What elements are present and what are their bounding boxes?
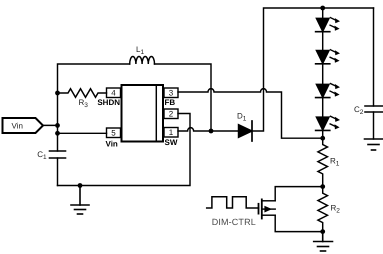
pin 2 box <box>164 109 178 119</box>
svg-text:R3: R3 <box>79 98 89 109</box>
svg-text:SHDN: SHDN <box>97 98 120 107</box>
svg-text:2: 2 <box>169 110 174 119</box>
pin 5 box <box>107 128 121 138</box>
junction dot: LED bottom / FB node <box>320 136 325 141</box>
wire: SW pin to switch node with hop <box>178 128 211 131</box>
svg-text:3: 3 <box>169 89 174 98</box>
junction dot: pin5 tap <box>55 131 60 136</box>
wire: switch node to diode <box>211 130 239 132</box>
svg-text:4: 4 <box>111 89 116 98</box>
wire: top rail right segment <box>155 64 212 131</box>
wire: D1 cathode up to output rail <box>252 8 374 131</box>
LED 1 <box>316 18 340 32</box>
ground (C2) <box>365 139 383 150</box>
Vin input tag <box>3 118 44 133</box>
svg-text:D1: D1 <box>237 112 247 123</box>
ground (input) <box>71 186 89 215</box>
diode D1 <box>239 125 253 138</box>
svg-text:C2: C2 <box>354 105 364 116</box>
svg-text:C1: C1 <box>37 150 47 161</box>
svg-text:L1: L1 <box>136 45 144 56</box>
wire: bottom ground rail <box>58 114 191 186</box>
LED 3 <box>316 84 340 98</box>
wire: LED string spine <box>322 8 324 138</box>
svg-text:1: 1 <box>169 128 174 137</box>
svg-text:R1: R1 <box>330 157 340 168</box>
svg-text:Vin: Vin <box>106 140 118 149</box>
PWM waveform DIM-CTRL <box>207 197 259 208</box>
resistor R2 <box>318 187 328 232</box>
svg-text:FB: FB <box>165 98 176 107</box>
junction dot: switch node <box>209 129 214 134</box>
IC U1 body <box>122 85 164 142</box>
inductor L1 <box>130 57 155 64</box>
pin 3 box <box>164 88 178 98</box>
wire: source to R2 bottom <box>275 215 323 231</box>
LED 4 <box>316 116 340 130</box>
svg-text:SW: SW <box>165 138 178 147</box>
junction dot: R2 bottom <box>320 229 325 234</box>
wire: C1 to bottom rail <box>57 158 59 186</box>
junction dot: ground tap <box>78 183 83 188</box>
ground (output) <box>314 232 333 251</box>
wire: pin 5 Vin <box>58 132 107 134</box>
svg-text:DIM-CTRL: DIM-CTRL <box>212 217 256 227</box>
svg-text:R2: R2 <box>331 204 341 215</box>
pin 1 box <box>164 128 178 138</box>
LED 2 <box>316 50 340 64</box>
capacitor C2 <box>373 8 375 106</box>
pin 4 box <box>107 88 121 98</box>
wire: Vin tag to rail <box>43 124 58 126</box>
transistor Q1 (NMOS) <box>259 199 262 218</box>
resistor R1 <box>318 138 328 186</box>
junction dot: Vin tag <box>55 123 60 128</box>
wire: input top rail left segment <box>58 64 130 151</box>
svg-text:5: 5 <box>111 129 116 138</box>
junction dot: output rail / LED top <box>320 6 325 11</box>
junction dot: R1/R2 node <box>320 184 325 189</box>
svg-text:Vin: Vin <box>12 121 23 130</box>
capacitor C1 <box>50 151 66 158</box>
wire: drain to R1/R2 node <box>275 187 323 201</box>
IC inner line <box>155 85 157 142</box>
wire: FB line with hops <box>178 89 323 139</box>
junction dot: R3 tap <box>55 91 60 96</box>
resistor R3 <box>58 89 107 98</box>
